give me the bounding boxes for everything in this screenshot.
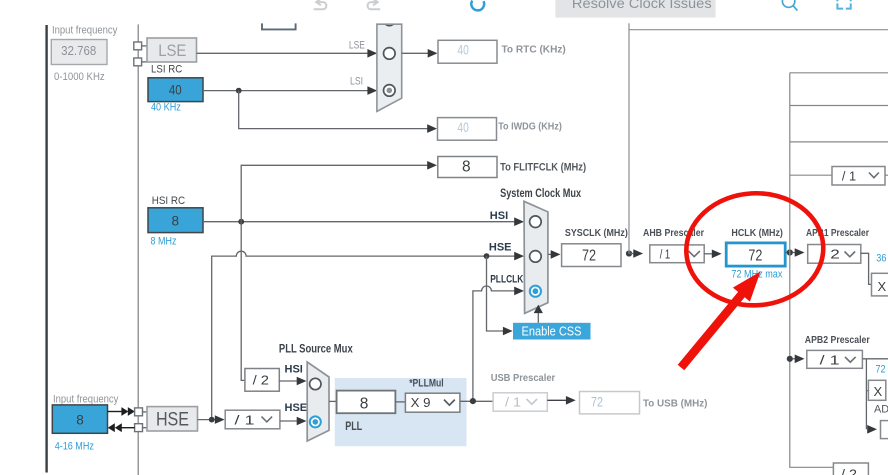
wire HSE riser to system mux (with hop over HSI line): [212, 251, 515, 419]
svg-text:72: 72: [582, 247, 596, 264]
pane left border: [45, 25, 47, 473]
svg-text:LSE: LSE: [349, 40, 365, 52]
junction SYSCLK: [626, 250, 632, 256]
svg-text:4-16 MHz: 4-16 MHz: [55, 441, 94, 453]
svg-text:LSI RC: LSI RC: [151, 63, 182, 75]
System Clock Mux body: [524, 201, 548, 313]
svg-text:/ 1: / 1: [820, 353, 840, 368]
svg-text:HSE: HSE: [156, 409, 189, 430]
HSE input frequency box 8: [52, 405, 107, 433]
svg-text:Input frequency: Input frequency: [52, 25, 118, 37]
wire PLL output: [460, 400, 493, 402]
svg-text:Resolve Clock Issues: Resolve Clock Issues: [572, 0, 712, 11]
wire APB2 to timer mult and ADC: [866, 359, 868, 430]
redo icon: [368, 0, 381, 9]
svg-text:HSE: HSE: [285, 402, 308, 414]
APB2 Prescaler dropdown /1: [807, 350, 863, 368]
wire HSI to FLITFCLK: [241, 165, 428, 221]
wire pin stubs to LSE: [142, 45, 147, 47]
radio HSI (unselected): [530, 216, 542, 228]
red annotation arrow: [678, 272, 761, 371]
svg-text:/ 1: / 1: [660, 246, 671, 261]
svg-text:40: 40: [457, 42, 468, 57]
wire APB1 to timer multiplier: [861, 253, 872, 284]
svg-text:72: 72: [591, 395, 603, 410]
radio LSE (unselected): [384, 48, 396, 60]
svg-text:40: 40: [457, 120, 468, 135]
svg-text:To IWDG (KHz): To IWDG (KHz): [498, 120, 562, 132]
svg-text:36 MHz max: 36 MHz max: [876, 253, 888, 265]
pin OSC32_OUT: [134, 58, 142, 66]
APB1 Prescaler dropdown /2: [808, 245, 861, 264]
svg-text:APB2 Prescaler: APB2 Prescaler: [805, 335, 870, 346]
svg-text:AHB Prescaler: AHB Prescaler: [643, 228, 704, 239]
PLLMul dropdown X 9: [405, 393, 460, 412]
svg-text:To USB (MHz): To USB (MHz): [643, 397, 707, 409]
To FLITFCLK box: [438, 157, 497, 178]
oscillator LSE box: [147, 38, 197, 62]
right panel HCLK distribution lines: [790, 73, 888, 468]
zoom-in magnifier icon: [782, 0, 797, 11]
wire pin stubs to HSE: [143, 411, 148, 413]
svg-text:8: 8: [360, 395, 369, 412]
svg-text:Input frequency: Input frequency: [53, 393, 119, 405]
svg-text:LSI: LSI: [350, 76, 363, 88]
svg-text:72 MHz max: 72 MHz max: [876, 364, 888, 376]
svg-text:/ 2: / 2: [841, 466, 857, 475]
svg-text:/ 2: / 2: [253, 373, 269, 388]
wire SYSCLK mux output: [548, 253, 552, 255]
wire USB prescaler to USB box: [547, 399, 566, 401]
APB1 timer multiplier X box: [872, 273, 888, 296]
svg-text:Enable CSS: Enable CSS: [522, 325, 582, 339]
wire HSE output: [198, 419, 217, 421]
RTC Clock Mux: [377, 14, 402, 111]
wire APB2 output right: [862, 358, 888, 360]
wire AHB to HCLK: [704, 253, 712, 255]
wire HSI riser to /2: [241, 222, 245, 381]
wire arrow into ADC box: [867, 425, 877, 434]
wire LSI to IWDG: [239, 91, 428, 129]
svg-text:HSI: HSI: [285, 364, 303, 376]
wire LSI to RTC mux: [203, 90, 369, 92]
svg-text:System Clock Mux: System Clock Mux: [500, 188, 581, 200]
ADC prescaler dropdown /2 (bottom, clipped): [833, 463, 868, 475]
Resolve Clock Issues button: [555, 0, 715, 18]
PLL block background: [335, 378, 467, 446]
svg-text:/ 1: / 1: [505, 395, 521, 410]
junction HSE: [209, 417, 215, 423]
svg-text:ADC Prescaler: ADC Prescaler: [874, 403, 888, 415]
wire HSE branch to Enable CSS: [487, 256, 504, 331]
wire HCLK to APB1 prescaler: [793, 252, 796, 254]
svg-text:PLL Source Mux: PLL Source Mux: [279, 343, 353, 355]
radio PLLCLK (selected, blue): [530, 286, 541, 297]
wire PLLXTPRE to PLL mux: [280, 420, 298, 422]
svg-text:X 2: X 2: [878, 279, 888, 294]
LSE input frequency box 32.768: [51, 40, 107, 65]
PLL input freq box 8: [337, 391, 396, 414]
wire HSI to system mux: [203, 221, 515, 223]
pin OSC_IN: [135, 408, 143, 416]
Enable CSS button: [513, 323, 591, 340]
radio HSI (unselected): [310, 378, 321, 389]
svg-text:8: 8: [172, 213, 180, 228]
svg-text:HCLK (MHz): HCLK (MHz): [731, 228, 783, 239]
svg-text:X: X: [874, 384, 883, 399]
svg-text:8: 8: [76, 413, 84, 428]
wire OSC_OUT pin to input (double arrow left): [121, 427, 134, 429]
svg-text:PLL: PLL: [345, 421, 362, 433]
HSI /2 divider box: [245, 369, 279, 392]
HCLK box 72 (blue highlight): [726, 243, 785, 266]
oscillator HSE box: [147, 407, 198, 431]
To IWDG box: [438, 118, 497, 141]
oscillator LSI RC box 40: [148, 78, 203, 102]
wire HCLK output to right panel: [785, 252, 790, 254]
PLLXTPRE dropdown /1: [225, 410, 280, 429]
svg-text:40: 40: [169, 83, 182, 98]
chip boundary line: [137, 24, 139, 475]
svg-text:72: 72: [748, 247, 762, 264]
APB2 timer multiplier X box: [868, 380, 885, 400]
AHB Prescaler dropdown /1: [650, 245, 704, 263]
junction APB2: [787, 356, 793, 362]
svg-text:32.768: 32.768: [61, 43, 96, 58]
wire /2 to PLL mux: [279, 380, 297, 382]
wire input to OSC_IN pin (double arrow): [108, 411, 123, 413]
oscillator HSI RC box 8: [148, 208, 203, 233]
wire HCLK to APB2 prescaler: [793, 358, 796, 360]
svg-text:HSI RC: HSI RC: [152, 195, 186, 207]
svg-text:APB1 Prescaler: APB1 Prescaler: [806, 228, 869, 239]
svg-text:/ 1: / 1: [842, 169, 856, 184]
svg-text:SYSCLK (MHz): SYSCLK (MHz): [565, 228, 628, 239]
SYSCLK box 72: [562, 244, 621, 267]
junction HCLK: [787, 249, 793, 255]
fit-screen dashed square icon: [837, 0, 850, 9]
junction PLL output: [470, 398, 476, 404]
svg-text:*PLLMul: *PLLMul: [409, 377, 444, 389]
PLL Source Mux body: [307, 362, 329, 441]
svg-text:HSI: HSI: [490, 210, 508, 222]
wire SYSCLK to AHB prescaler: [629, 253, 634, 255]
wire RTC mux output: [402, 52, 429, 54]
junction LSI: [236, 88, 242, 94]
To USB box 72 (disabled): [580, 392, 640, 414]
wire PLLCLK to system mux (with hop over CSS line): [473, 286, 515, 399]
USB Prescaler dropdown /1 (disabled): [493, 393, 547, 411]
svg-text:LSE: LSE: [158, 41, 186, 60]
toolbar bracket (partial box bottom): [262, 23, 296, 29]
junction HSI: [238, 219, 244, 225]
svg-text:8: 8: [462, 159, 471, 176]
radio HSE (selected, blue): [310, 416, 321, 427]
wire LSE to RTC mux: [197, 52, 369, 54]
svg-text:PLLCLK: PLLCLK: [490, 274, 523, 286]
svg-text:8 MHz: 8 MHz: [151, 235, 177, 247]
ADC output box (clipped): [881, 421, 888, 439]
wire Enable CSS up-arrow into mux: [537, 313, 539, 323]
refresh icon (blue): [471, 1, 484, 11]
svg-text:To FLITFCLK (MHz): To FLITFCLK (MHz): [500, 161, 586, 173]
svg-text:USB Prescaler: USB Prescaler: [491, 372, 556, 384]
wire 8 box to PLLMul: [395, 401, 405, 403]
wire SYSCLK riser to top: [629, 23, 888, 253]
red annotation ellipse: [683, 190, 826, 309]
pin OSC_OUT: [135, 424, 143, 432]
svg-text:To RTC (KHz): To RTC (KHz): [502, 44, 566, 56]
junction HSE/CSS: [484, 253, 490, 259]
radio LSI (selected): [384, 85, 396, 97]
svg-text:40 KHz: 40 KHz: [151, 102, 181, 114]
svg-text:HSE: HSE: [489, 241, 512, 253]
undo icon: [314, 0, 327, 9]
radio HSE (unselected): [530, 251, 542, 263]
pin OSC32_IN: [134, 42, 142, 50]
svg-text:X 9: X 9: [411, 395, 431, 410]
svg-text:/ 1: / 1: [235, 412, 255, 427]
svg-text:0-1000 KHz: 0-1000 KHz: [54, 71, 105, 83]
To RTC box: [438, 40, 497, 63]
Cortex prescaler dropdown /1: [832, 167, 888, 186]
wire PLL mux output: [329, 400, 337, 402]
